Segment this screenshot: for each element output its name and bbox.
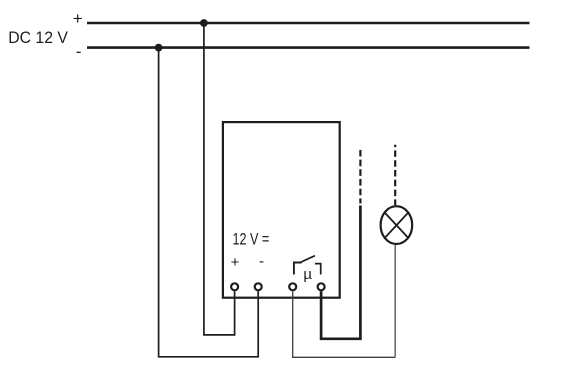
wire terminal 3 to lamp xyxy=(293,291,396,357)
dashed wire above lamp xyxy=(394,145,396,206)
svg-text:-: - xyxy=(76,42,82,61)
terminal 1 xyxy=(231,283,238,290)
relay contact µ xyxy=(294,256,321,275)
terminal 3 xyxy=(289,283,296,290)
-12V bus xyxy=(87,46,530,49)
svg-text:+: + xyxy=(73,9,83,28)
actuator box U1 xyxy=(223,122,340,298)
lamp E1 xyxy=(381,206,413,244)
wire from - bus junction to terminal 2 xyxy=(159,48,259,357)
svg-text:+: + xyxy=(231,254,240,271)
svg-text:12 V =: 12 V = xyxy=(233,230,270,249)
lamp drop wire xyxy=(394,245,396,358)
terminal 2 xyxy=(255,283,262,290)
svg-text:µ: µ xyxy=(303,266,312,283)
+12V bus xyxy=(87,22,530,25)
wire from + bus junction to terminal 1 xyxy=(204,23,235,335)
junction dot on - bus xyxy=(155,44,163,52)
svg-text:-: - xyxy=(259,253,264,270)
wire terminal 4 to external (thick) xyxy=(321,206,360,339)
junction dot on + bus xyxy=(200,19,208,27)
svg-text:DC 12 V: DC 12 V xyxy=(8,29,68,48)
terminal 4 xyxy=(318,283,325,290)
dashed continuation above thick wire xyxy=(359,150,361,204)
